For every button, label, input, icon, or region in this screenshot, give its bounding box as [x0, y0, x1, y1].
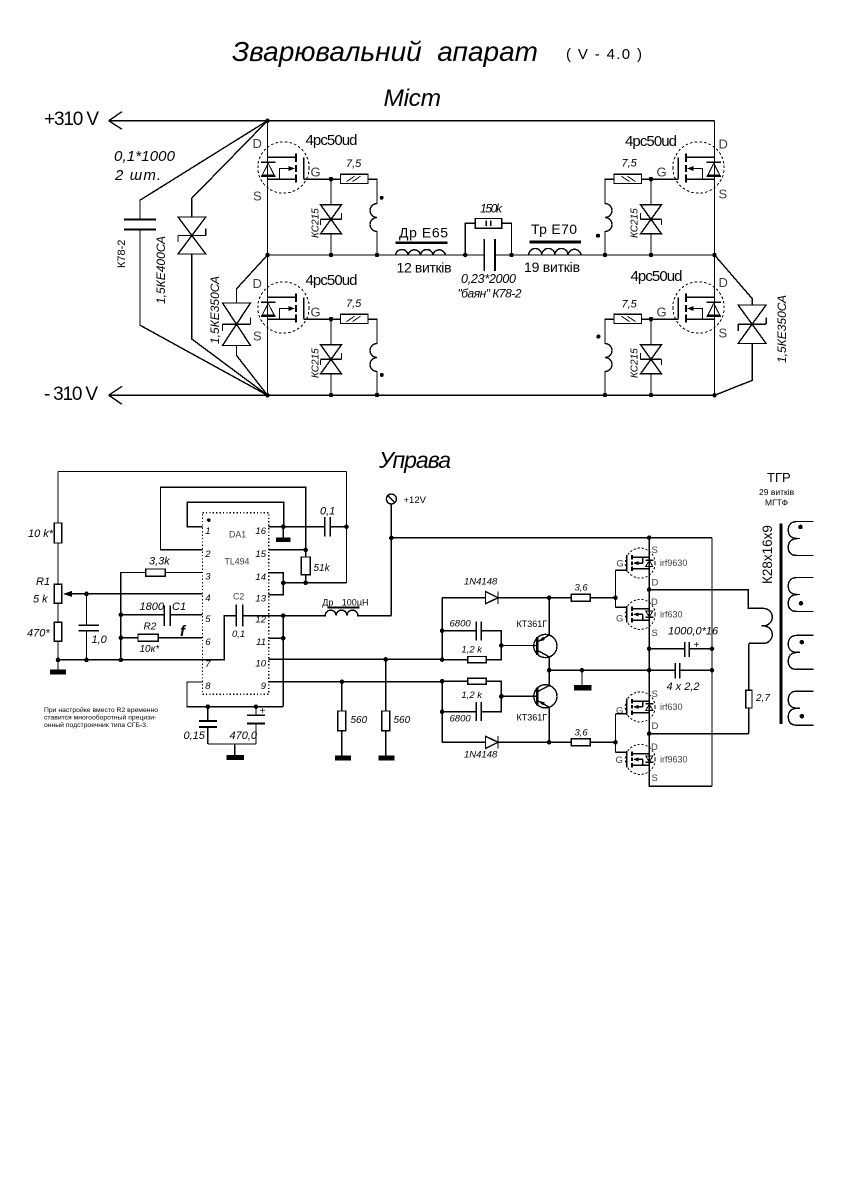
polarity dot LL — [380, 373, 384, 377]
svg-text:1,2 k: 1,2 k — [461, 645, 483, 656]
svg-text:irf9630: irf9630 — [660, 755, 688, 765]
svg-text:3,6: 3,6 — [575, 583, 589, 594]
core TGR — [779, 523, 782, 724]
svg-text:Міст: Міст — [384, 85, 442, 112]
wire pin8 bottom — [187, 682, 283, 707]
svg-text:D: D — [719, 137, 728, 152]
wire to primary top — [649, 590, 763, 609]
ground left — [57, 660, 59, 670]
node bottom-right — [712, 393, 716, 397]
resistor 3,6 lower — [571, 739, 615, 746]
svg-text:G: G — [616, 614, 623, 625]
svg-text:S: S — [253, 189, 262, 204]
svg-text:G: G — [657, 305, 667, 320]
svg-text:1,5КЕ400СА: 1,5КЕ400СА — [154, 236, 168, 304]
svg-text:51k: 51k — [314, 563, 331, 574]
capacitor 6800 upper — [442, 598, 501, 660]
primary winding TGR — [749, 608, 772, 643]
wire 12V rail — [391, 537, 712, 539]
svg-text:3,6: 3,6 — [575, 728, 589, 739]
resistor 1,2k lower — [442, 678, 537, 742]
resistor 560 second — [382, 659, 390, 755]
ground caps — [208, 744, 256, 755]
capacitor 0,23*2000 series — [484, 239, 495, 271]
pin numbers right — [255, 526, 266, 692]
svg-text:4pc50ud: 4pc50ud — [625, 133, 677, 150]
svg-text:5: 5 — [205, 614, 211, 625]
resistor 51k — [269, 550, 310, 583]
svg-text:7: 7 — [205, 659, 211, 670]
svg-text:1800: 1800 — [140, 601, 165, 613]
svg-text:D: D — [253, 136, 262, 151]
svg-text:C2: C2 — [233, 592, 244, 602]
svg-text:онный подстроечник типа СГБ-3: онный подстроечник типа СГБ-3. — [44, 721, 148, 729]
svg-text:0,15: 0,15 — [184, 730, 206, 742]
wire top rail +310V — [109, 120, 715, 122]
IC DA1 TL494 dotted box — [203, 513, 269, 695]
svg-text:S: S — [652, 628, 658, 639]
svg-text:R2: R2 — [144, 622, 157, 633]
transistor 4pc50ud lower-right — [603, 282, 725, 398]
svg-text:КС215: КС215 — [311, 208, 322, 238]
capacitor C2 0,1 internal — [203, 605, 269, 660]
svg-text:R1: R1 — [36, 576, 50, 588]
wire right bus — [714, 121, 716, 396]
resistor 1,2k upper — [442, 646, 537, 663]
svg-text:Управа: Управа — [378, 447, 451, 473]
svg-text:1,5КЕ350СА: 1,5КЕ350СА — [775, 295, 789, 363]
capacitor C1 1800 — [121, 606, 203, 626]
svg-text:10к*: 10к* — [140, 644, 161, 655]
transistor irf630 M2 — [616, 599, 656, 629]
ground mid — [581, 670, 583, 685]
choke Dr 100uH pin12 — [269, 610, 392, 615]
wire to primary bottom — [649, 733, 749, 735]
wire pin9 — [269, 681, 442, 683]
capacitor 1,0 — [79, 594, 99, 660]
svg-text:D: D — [253, 276, 262, 291]
svg-text:11: 11 — [256, 637, 266, 648]
svg-text:6800: 6800 — [450, 619, 472, 630]
wire top feedback line — [58, 472, 347, 583]
svg-text:12 витків: 12 витків — [397, 260, 452, 276]
node mid-left — [265, 253, 269, 257]
transistor 4pc50ud lower-left — [258, 282, 380, 398]
svg-text:560: 560 — [351, 715, 368, 726]
svg-text:4: 4 — [205, 593, 210, 604]
svg-text:12: 12 — [255, 615, 266, 626]
svg-text:G: G — [616, 558, 623, 569]
winding 3 — [788, 635, 813, 669]
svg-text:D: D — [719, 275, 728, 290]
transistor irf9630 M4 — [616, 744, 656, 774]
resistor 3,3k — [121, 569, 203, 660]
winding 4 — [788, 691, 813, 725]
svg-text:+: + — [694, 640, 700, 651]
svg-text:3,3k: 3,3k — [149, 556, 170, 568]
capacitor 0,1 pin16 — [269, 517, 347, 537]
svg-text:7,5: 7,5 — [622, 299, 638, 311]
svg-text:S: S — [253, 329, 262, 344]
svg-text:4pc50ud: 4pc50ud — [306, 272, 358, 289]
svg-text:9: 9 — [261, 681, 267, 692]
svg-text:- 310 V: - 310 V — [44, 384, 98, 405]
ground pin16 — [282, 527, 284, 538]
svg-text:7,5: 7,5 — [622, 158, 638, 170]
svg-text:2 шт.: 2 шт. — [114, 167, 161, 184]
svg-text:7,5: 7,5 — [346, 158, 362, 170]
resistor 3,6 upper — [571, 594, 615, 601]
svg-text:КТ361Г: КТ361Г — [517, 712, 548, 722]
svg-text:1N4148: 1N4148 — [464, 750, 498, 761]
svg-text:1N4148: 1N4148 — [464, 577, 498, 588]
polarity dot LR — [596, 335, 600, 339]
svg-text:470,0: 470,0 — [230, 730, 258, 742]
svg-text:S: S — [652, 773, 658, 784]
svg-text:10 k*: 10 k* — [28, 528, 54, 540]
arrow top rail — [109, 112, 122, 130]
svg-text:16: 16 — [255, 526, 266, 537]
capacitor 470,0 — [247, 707, 265, 744]
TVS 1,5КЕ400СА — [178, 121, 268, 396]
svg-text:4pc50ud: 4pc50ud — [306, 132, 358, 149]
svg-text:0,23*2000: 0,23*2000 — [461, 272, 516, 286]
gate bracket lower pair — [615, 714, 617, 753]
capacitor 1000,0*16 — [649, 642, 712, 657]
diode 1N4148 lower — [442, 736, 571, 748]
resistor 470* — [54, 622, 62, 660]
svg-text:G: G — [657, 165, 667, 180]
wire pins 11 12 vertical — [269, 616, 284, 707]
svg-text:15: 15 — [255, 549, 266, 560]
svg-text:G: G — [311, 305, 321, 320]
svg-text:S: S — [719, 187, 728, 202]
svg-text:К78-2: К78-2 — [116, 240, 128, 268]
svg-text:G: G — [311, 165, 321, 180]
wire bottom rail -310V — [109, 394, 715, 396]
svg-text:S: S — [652, 545, 658, 556]
svg-text:МГТФ: МГТФ — [765, 498, 788, 508]
svg-text:5 k: 5 k — [33, 594, 48, 606]
node mid-right — [712, 253, 716, 257]
svg-text:D: D — [651, 597, 658, 608]
supply +12V — [386, 494, 396, 504]
TVS 1,5КЕ350СА left — [223, 255, 268, 395]
svg-text:КС215: КС215 — [630, 348, 641, 378]
svg-text:8: 8 — [205, 681, 211, 692]
svg-text:3: 3 — [205, 572, 211, 583]
svg-text:КТ361Г: КТ361Г — [517, 619, 548, 629]
svg-text:1,2 k: 1,2 k — [461, 690, 483, 701]
transistor KT361G upper — [534, 598, 557, 671]
svg-text:+: + — [260, 706, 266, 717]
svg-text:6: 6 — [205, 637, 211, 648]
transistor irf9630 M1 — [616, 548, 656, 578]
svg-text:13: 13 — [255, 594, 266, 605]
svg-text:irf630: irf630 — [660, 610, 683, 620]
svg-text:4pc50ud: 4pc50ud — [631, 268, 683, 285]
svg-text:G: G — [616, 706, 623, 717]
svg-text:1,0: 1,0 — [92, 634, 108, 646]
pin2 bridge wire — [161, 487, 306, 550]
svg-text:Тр Е70: Тр Е70 — [531, 221, 577, 237]
arrow bottom rail — [109, 386, 122, 404]
resistor R2 10k* — [121, 634, 203, 641]
svg-text:0,1: 0,1 — [232, 629, 245, 640]
svg-text:S: S — [652, 689, 658, 700]
diode 1N4148 upper — [442, 592, 571, 604]
winding 2 — [788, 578, 813, 612]
svg-text:14: 14 — [255, 572, 266, 583]
svg-text:TL494: TL494 — [225, 557, 250, 567]
svg-text:1: 1 — [205, 526, 210, 537]
inductor Dr E65 — [396, 249, 446, 255]
wire common emitters — [549, 669, 712, 671]
svg-text:irf630: irf630 — [660, 702, 683, 712]
capacitor 4x2,2 — [675, 663, 680, 678]
wire right return vertical — [649, 538, 712, 787]
svg-text:29 витків: 29 витків — [759, 487, 795, 497]
svg-text:G: G — [616, 755, 623, 766]
svg-text:150k: 150k — [480, 202, 503, 216]
svg-text:DA1: DA1 — [229, 530, 246, 540]
resistor 10k* — [54, 472, 62, 585]
svg-text:При настройке вместо R2 времен: При настройке вместо R2 временно — [44, 706, 158, 714]
svg-text:2: 2 — [204, 549, 211, 560]
TVS 1,5КЕ350СА right — [715, 255, 767, 395]
svg-text:100µН: 100µН — [342, 598, 369, 608]
svg-text:D: D — [652, 721, 659, 732]
svg-text:ТГР: ТГР — [767, 470, 791, 485]
svg-text:"баян" К78-2: "баян" К78-2 — [458, 287, 522, 301]
svg-text:Др: Др — [322, 598, 333, 608]
pins 13 14 bracket — [269, 573, 347, 595]
svg-text:4 x 2,2: 4 x 2,2 — [667, 681, 700, 693]
resistor 2,7 — [746, 643, 752, 733]
capacitor 0,15 — [199, 707, 217, 744]
transistor 4pc50ud upper-right — [603, 142, 725, 257]
svg-text:КС215: КС215 — [311, 348, 322, 378]
svg-text:+310 V: +310 V — [44, 109, 99, 130]
wire mid rail left segment — [268, 254, 715, 256]
svg-text:irf9630: irf9630 — [660, 558, 688, 568]
resistor 560 first — [338, 682, 346, 756]
svg-text:D: D — [651, 742, 658, 753]
svg-text:+12V: +12V — [404, 495, 427, 506]
transistor KT361G lower — [534, 670, 557, 742]
note text — [44, 706, 158, 729]
svg-text:6800: 6800 — [450, 714, 472, 725]
node -310V — [265, 393, 269, 397]
svg-text:S: S — [719, 326, 728, 341]
svg-text:0,1*1000: 0,1*1000 — [114, 148, 176, 165]
svg-text:560: 560 — [394, 715, 411, 726]
svg-text:7,5: 7,5 — [346, 298, 362, 310]
wire bottom to pin7 — [58, 659, 203, 661]
wire pin10 — [269, 658, 442, 660]
svg-text:470*: 470* — [27, 628, 50, 640]
winding 1 — [788, 522, 813, 556]
polarity dot UL — [380, 196, 384, 200]
gate bracket upper pair — [615, 570, 617, 607]
capacitor 6800 lower — [442, 696, 501, 721]
svg-text:Зварювальний апарат: Зварювальний апарат — [232, 36, 538, 67]
svg-text:К28х16х9: К28х16х9 — [760, 525, 775, 584]
pin1 bridge wire — [187, 502, 283, 527]
potentiometer R1 5k — [54, 584, 202, 622]
svg-text:C1: C1 — [172, 601, 186, 613]
polarity dot UR — [596, 234, 600, 238]
wire left bus — [267, 121, 269, 396]
inductor Tr E70 — [529, 248, 581, 255]
svg-text:КС215: КС215 — [630, 208, 641, 238]
node +310V — [265, 119, 269, 123]
pin numbers left — [204, 526, 211, 692]
svg-text:2,7: 2,7 — [755, 693, 770, 704]
svg-text:0,1: 0,1 — [320, 506, 335, 518]
transistor irf630 M3 — [616, 692, 656, 722]
resistor 150k — [465, 219, 511, 256]
svg-text:19 витків: 19 витків — [524, 259, 580, 275]
svg-text:ставится многооборотный прециз: ставится многооборотный прецизи- — [44, 714, 156, 722]
svg-text:( V - 4.0 ): ( V - 4.0 ) — [566, 46, 642, 63]
svg-text:10: 10 — [255, 658, 266, 669]
wire output chain — [648, 538, 650, 787]
capacitor K78-2 0,1*1000 — [124, 121, 267, 396]
svg-text:Др Е65: Др Е65 — [399, 225, 448, 241]
svg-text:D: D — [652, 578, 659, 589]
transistor 4pc50ud upper-left — [258, 142, 380, 257]
svg-text:1,5КЕ350СА: 1,5КЕ350СА — [208, 276, 222, 344]
